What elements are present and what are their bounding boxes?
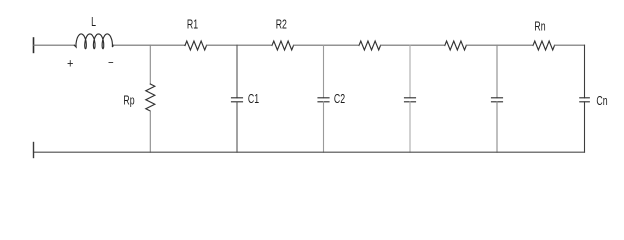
svg-text:Rp: Rp (123, 94, 134, 108)
wire: top rail node down to capacitor Cn at x=584.5 (584, 45, 586, 98)
svg-text:R1: R1 (187, 18, 198, 32)
wire: top rail node down to capacitor C2 at x=323.5 (323, 45, 325, 98)
wire top rail: terminal to inductor (34, 44, 75, 46)
wire: capacitor C (unlabeled) to bottom rail (496, 102, 498, 152)
resistor R3 (unlabeled) (359, 41, 381, 50)
svg-text:+: + (67, 56, 73, 71)
wire: capacitor C2 to bottom rail (323, 102, 325, 152)
wire: top rail node down to capacitor C (unlabeled) at x=410 (409, 45, 411, 98)
resistor R2 (272, 41, 294, 50)
svg-text:C1: C1 (248, 92, 259, 106)
wire: node down to resistor Rp (149, 45, 151, 84)
wire bottom rail (34, 151, 585, 153)
svg-text:L: L (91, 16, 96, 30)
resistor R1 (185, 41, 207, 50)
wire top rail: R2 to R3 through node C2 (294, 44, 360, 46)
capacitor C (unlabeled) plates (492, 98, 503, 102)
svg-text:Cn: Cn (596, 94, 607, 108)
resistor Rp (vertical shunt) (146, 84, 155, 111)
capacitor C (unlabeled) plates (405, 98, 416, 102)
wire: top rail node down to capacitor C1 at x=237 (236, 45, 238, 98)
svg-text:C2: C2 (334, 92, 345, 106)
wire top rail: R4 to Rn through node C4 (466, 44, 533, 46)
capacitor Cn plates (580, 98, 590, 102)
resistor R4 (unlabeled) (445, 41, 467, 50)
wire: capacitor C1 to bottom rail (236, 102, 238, 152)
wire: Rp to bottom rail (149, 111, 151, 152)
svg-text:Rn: Rn (534, 20, 545, 34)
capacitor C2 plates (318, 98, 329, 102)
input terminal bar bottom-left (33, 143, 35, 158)
wire: capacitor Cn to bottom rail (584, 102, 586, 152)
wire: top rail node down to capacitor C (unlabeled) at x=497 (496, 45, 498, 98)
wire top rail: Rn to top-right corner (555, 44, 585, 46)
inductor L (74, 34, 113, 49)
svg-text:R2: R2 (276, 18, 287, 32)
wire top rail: R1 to R2 through node C1 (207, 44, 273, 46)
wire top rail: inductor to R1 through Rp node (114, 44, 185, 46)
capacitor C1 plates (232, 98, 243, 102)
svg-text:−: − (108, 56, 114, 69)
wire: capacitor C (unlabeled) to bottom rail (409, 102, 411, 152)
input terminal bar top-left (33, 38, 35, 52)
wire top rail: R3 to R4 through node C3 (381, 44, 445, 46)
resistor Rn (533, 41, 555, 50)
